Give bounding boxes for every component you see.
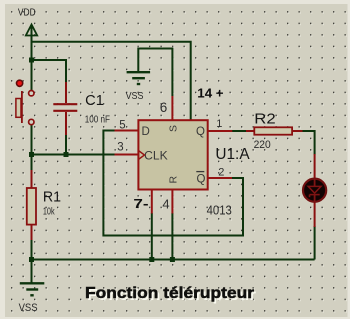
svg-text:6: 6 (160, 100, 168, 115)
op-amp U1 body (4013 flip-flop) (138, 120, 207, 189)
pin 2 Q-bar stub (208, 177, 232, 179)
svg-text:10k: 10k (43, 206, 55, 217)
svg-text:VSS: VSS (126, 90, 144, 102)
svg-text:Q: Q (197, 173, 206, 185)
resistor R1 (27, 170, 61, 240)
svg-text:1: 1 (216, 118, 222, 130)
wire VDD rail to pin 14 (32, 42, 191, 120)
svg-text:VSS: VSS (19, 302, 38, 314)
node junction button/R1/CLK (29, 152, 34, 157)
svg-text:R1: R1 (43, 190, 61, 206)
wire VDD stem down to button (31, 27, 33, 91)
wire top VSS link to pin 6 (138, 49, 172, 97)
wire D to Q-bar loop (103, 131, 243, 236)
LED D1 (303, 154, 326, 227)
node junction pin7/bus (149, 257, 154, 262)
node junction VDD/button/C1 (29, 58, 34, 63)
wire ground-left stem (31, 260, 33, 283)
wire Q to R2 (232, 130, 249, 132)
svg-text:Q: Q (196, 126, 205, 138)
svg-text:R2: R2 (254, 111, 275, 127)
pin 1 Q stub (208, 130, 233, 132)
pin 3 CLK stub (115, 154, 139, 156)
wire LED to ground bus (314, 226, 316, 260)
svg-text:R: R (168, 176, 180, 184)
wire CLK bus (32, 154, 116, 156)
svg-text:7-: 7- (133, 196, 148, 211)
resistor R2 (246, 111, 303, 151)
svg-text:220: 220 (254, 139, 271, 151)
svg-text:D: D (142, 126, 150, 138)
svg-text:100 nF: 100 nF (85, 114, 110, 125)
pin 4 R stub (171, 190, 173, 214)
capacitor C1 (53, 82, 110, 155)
svg-text:4: 4 (162, 196, 169, 211)
svg-text:VDD: VDD (18, 8, 36, 19)
ground VSS bottom-left (19, 283, 45, 314)
svg-text:CLK: CLK (144, 151, 168, 163)
svg-text:3: 3 (117, 142, 123, 154)
node junction C1 bottom (64, 152, 69, 157)
wire pin 7 to ground bus (151, 213, 153, 260)
svg-text:Fonction télérupteur: Fonction télérupteur (85, 285, 254, 302)
wire R1 bottom to ground bus (31, 238, 33, 260)
wire ground bus (32, 259, 315, 261)
wire R2 to LED (302, 131, 315, 155)
ground VSS top-middle (126, 72, 151, 102)
power symbol VDD (18, 8, 37, 36)
node junction R1/ground (29, 257, 34, 262)
svg-text:2: 2 (218, 167, 224, 179)
pin 5 D stub (115, 130, 139, 132)
svg-text:S: S (167, 125, 179, 132)
wire R1 top lead (31, 155, 33, 175)
svg-text:C1: C1 (85, 93, 104, 109)
wire branch to C1 top (32, 60, 67, 82)
push button SW1 (16, 79, 34, 124)
wire button bottom to CLK bus (31, 125, 33, 155)
svg-text:U1:A: U1:A (215, 146, 250, 163)
svg-text:14 +: 14 + (197, 86, 224, 101)
pin 7 VSS stub (151, 190, 153, 214)
pin 6 S stub (171, 96, 173, 120)
wire pin 4 to ground bus (171, 213, 173, 260)
svg-text:4013: 4013 (207, 203, 232, 217)
node junction pin4/bus (170, 257, 175, 262)
svg-text:5: 5 (119, 119, 125, 131)
title Fonction télérupteur (85, 285, 256, 304)
